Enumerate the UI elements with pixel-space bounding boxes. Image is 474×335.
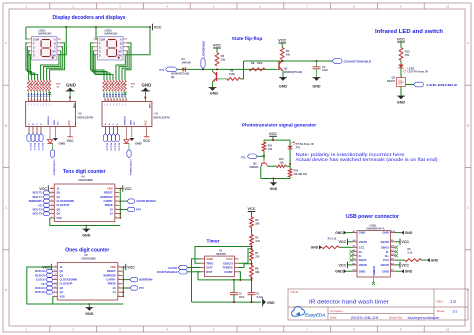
no-connect X below RN2 (123, 92, 126, 95)
svg-text:9: 9 (54, 291, 55, 293)
svg-text:Date:: Date: (330, 315, 337, 319)
svg-text:3: 3 (119, 274, 120, 276)
ground flag GND (decoder) (131, 127, 133, 138)
svg-text:A: A (120, 38, 122, 42)
svg-text:SN74LS247N: SN74LS247N (154, 116, 170, 120)
wire Q3 gate to LED-ENABLE (406, 84, 414, 86)
svg-text:BCD-O1: BCD-O1 (109, 143, 111, 152)
svg-text:SN74LS247N: SN74LS247N (77, 116, 93, 120)
svg-text:VCC: VCC (143, 139, 151, 143)
svg-text:CLOCKUP: CLOCKUP (60, 282, 73, 286)
svg-text:1N4148: 1N4148 (182, 60, 192, 64)
svg-text:BCD-O0: BCD-O0 (105, 143, 107, 152)
svg-text:GND: GND (66, 82, 76, 87)
wire LED1 left segment nest (26, 43, 29, 80)
power flag VCC (USB B4) (348, 264, 353, 266)
svg-text:CLOCK: CLOCK (36, 279, 45, 282)
wire LED5 to Q3 (400, 68, 402, 78)
svg-text:COM: COM (33, 38, 39, 42)
svg-text:2: 2 (116, 191, 117, 193)
ground flag GND (Q2) (280, 78, 286, 81)
svg-text:R5: R5 (286, 49, 290, 53)
svg-text:Infrared LED and switch: Infrared LED and switch (375, 29, 443, 35)
svg-text:10: 10 (54, 287, 56, 289)
svg-text:CC2: CC2 (383, 258, 389, 262)
title block (288, 289, 468, 320)
svg-text:GND: GND (335, 231, 343, 235)
net port flag BCD-O2 (111, 134, 115, 142)
wire VCC rail top (26, 26, 150, 28)
svg-text:PRE/E: PRE/E (108, 282, 116, 286)
svg-text:CONT: CONT (224, 270, 233, 274)
wire U1 TRIG loop to divider (195, 247, 252, 264)
svg-text:C: C (120, 45, 122, 49)
svg-text:VCC: VCC (68, 120, 71, 125)
svg-text:8: 8 (50, 100, 51, 102)
svg-text:COUNT-ENABLE: COUNT-ENABLE (53, 160, 56, 177)
svg-text:VCC: VCC (339, 240, 347, 244)
svg-text:GND: GND (270, 187, 278, 191)
no-connect SBU2 (395, 246, 398, 249)
svg-text:10nF: 10nF (239, 296, 245, 299)
svg-text:7: 7 (116, 212, 117, 214)
svg-text:COUNT-ENABLE: COUNT-ENABLE (344, 59, 372, 63)
svg-text:PT1: PT1 (296, 146, 301, 149)
svg-text:10k: 10k (286, 52, 291, 56)
diode BI/RBO indicator (125, 127, 127, 140)
svg-text:GND: GND (405, 270, 413, 274)
svg-text:A: A (467, 41, 469, 45)
svg-text:BCD-T0: BCD-T0 (33, 213, 43, 216)
svg-text:TITLE:: TITLE: (290, 290, 299, 294)
svg-text:Tens digit counter: Tens digit counter (63, 169, 106, 175)
resistor R6 10k (215, 53, 219, 67)
wire R13 to LED5 (400, 61, 402, 65)
resistor RN2 element 1 (103, 80, 106, 91)
svg-text:11: 11 (35, 100, 37, 102)
ground flag GND (Q3) (398, 96, 404, 99)
svg-text:U4: U4 (81, 175, 85, 179)
svg-text:R11: R11 (268, 144, 273, 148)
no-connect D- left (350, 254, 353, 257)
power flag VCC right of U4 (120, 188, 123, 190)
svg-text:7: 7 (119, 291, 120, 293)
svg-text:D: D (33, 53, 35, 57)
svg-text:Q3: Q3 (60, 286, 64, 290)
svg-text:C: C (467, 206, 469, 210)
wire timer bottom rail (192, 301, 262, 303)
power flag VCC (USB A9) (395, 264, 400, 266)
svg-text:SBU1: SBU1 (359, 258, 367, 262)
svg-text:BCD-O0: BCD-O0 (35, 291, 45, 294)
svg-text:SHIELD: SHIELD (372, 266, 376, 276)
net port flag BCD-T0 (43, 212, 50, 216)
svg-text:4: 4 (116, 200, 117, 202)
ground flag GND (USB B1) (395, 270, 401, 272)
svg-text:U3: U3 (155, 112, 159, 116)
svg-text:GND: GND (142, 82, 152, 87)
svg-text:CLOCKDOWN: CLOCKDOWN (60, 278, 78, 282)
svg-text:BCD-T1: BCD-T1 (33, 196, 43, 199)
svg-text:FT1: FT1 (160, 68, 165, 72)
svg-text:BCD-O1: BCD-O1 (35, 287, 45, 290)
node VCC rail junction C (149, 26, 151, 28)
svg-text:Q3: Q3 (57, 207, 61, 211)
wire Q2 collector output (244, 60, 333, 62)
svg-text:CD40192BE: CD40192BE (78, 178, 93, 182)
svg-text:2N3904: 2N3904 (249, 165, 259, 169)
net port flag BCD-O1 (46, 286, 53, 290)
svg-text:10: 10 (38, 100, 40, 102)
net port flag BCD-T2 (35, 134, 39, 142)
svg-text:10k OR 15k: 10k OR 15k (294, 173, 308, 176)
svg-text:2N3904(TO-92): 2N3904(TO-92) (284, 70, 302, 74)
svg-text:4.7k: 4.7k (255, 240, 260, 243)
wire VCC bus right of U4 (119, 189, 121, 218)
svg-text:GND: GND (397, 101, 406, 105)
svg-text:GND: GND (267, 301, 275, 305)
net port flag CLOCK (46, 278, 53, 282)
svg-text:GND: GND (359, 269, 367, 273)
capacitor C3 10uF (316, 61, 318, 67)
net port flag BCD-T1 (43, 195, 50, 199)
svg-text:2020-06-29: 2020-06-29 (351, 316, 379, 320)
svg-text:B: B (54, 42, 56, 46)
svg-text:5: 5 (116, 204, 117, 206)
svg-text:VCC: VCC (401, 240, 409, 244)
wire VCC bus right of U6 (122, 267, 124, 296)
svg-text:RBI#: RBI# (54, 119, 56, 125)
net port flag BCD-O1 (107, 134, 111, 142)
svg-text:C: C (5, 206, 7, 210)
phototransistor PT1 (289, 140, 291, 146)
ground flag GND (Q1) (209, 88, 215, 91)
svg-text:5.1k: 5.1k (408, 252, 413, 255)
svg-text:Q1: Q1 (171, 75, 175, 79)
svg-text:14: 14 (54, 270, 56, 272)
svg-text:COM: COM (99, 38, 105, 42)
svg-text:Q1: Q1 (60, 273, 64, 277)
svg-text:33k: 33k (255, 222, 260, 225)
svg-text:100k: 100k (257, 61, 263, 65)
resistor RN2 element 7 (121, 80, 124, 91)
svg-text:VSS: VSS (57, 216, 62, 220)
svg-text:Drawn By:: Drawn By: (389, 315, 403, 319)
svg-text:BI/RBO#: BI/RBO# (125, 115, 127, 125)
svg-text:R6: R6 (221, 54, 225, 58)
svg-text:CARRY: CARRY (106, 278, 115, 282)
svg-text:LED-TH-5mm_IR: LED-TH-5mm_IR (408, 70, 429, 74)
svg-text:Timer: Timer (207, 239, 220, 245)
svg-text:VCC: VCC (67, 139, 75, 143)
svg-text:VCC: VCC (397, 38, 405, 42)
svg-text:B: B (5, 123, 7, 127)
net port flag VG (46, 282, 53, 286)
svg-text:Q1: Q1 (57, 195, 61, 199)
svg-text:D+: D+ (385, 254, 389, 258)
svg-text:Q2: Q2 (57, 191, 61, 195)
svg-text:Ones digit counter: Ones digit counter (65, 247, 109, 253)
svg-text:U1: U1 (219, 248, 223, 252)
svg-text:VCC: VCC (39, 187, 47, 191)
svg-text:10: 10 (114, 100, 116, 102)
node VCC rail junction A (65, 26, 67, 28)
svg-text:BCD-T0: BCD-T0 (29, 143, 31, 151)
svg-text:8: 8 (119, 295, 120, 297)
svg-text:BORROW: BORROW (100, 195, 113, 199)
svg-text:150: 150 (405, 53, 410, 57)
svg-text:SBU2: SBU2 (381, 245, 389, 249)
svg-text:15: 15 (54, 266, 56, 268)
ground flag GND (USB A1) (347, 232, 353, 234)
net port flag BCD-T0 (27, 134, 31, 142)
svg-text:LED-ENABLE: LED-ENABLE (202, 41, 206, 58)
svg-text:VCC: VCC (42, 265, 50, 269)
power flag VCC (Q2 collector supply) (278, 42, 286, 44)
svg-text:RESET: RESET (107, 269, 116, 273)
svg-text:USB power connector: USB power connector (346, 214, 399, 220)
net port flag BCD-T3 (43, 208, 50, 212)
IC U5 SN74LS247N decoder (26, 102, 76, 127)
resistor R13 150 (399, 48, 403, 61)
ground flag GND (tens display) (69, 91, 71, 98)
wire phototransistor top rail (264, 139, 290, 141)
svg-text:3: 3 (116, 195, 117, 197)
net port flag COUNT-ENABLE (120, 200, 127, 202)
power flag VCC (USB B9) (395, 241, 400, 243)
svg-text:GND: GND (359, 231, 367, 235)
svg-text:A: A (54, 38, 56, 42)
svg-text:BS170: BS170 (387, 79, 395, 83)
resistor R2 5.1k (CC2 pulldown) (395, 259, 405, 261)
no-connect X below RN1 (48, 92, 51, 95)
svg-text:Q2: Q2 (60, 269, 64, 273)
svg-text:C3: C3 (322, 65, 326, 69)
resistor R9 100k (217, 78, 228, 80)
svg-text:EasyEDA: EasyEDA (305, 313, 325, 318)
svg-text:BI/RBO#: BI/RBO# (48, 115, 50, 125)
svg-text:8: 8 (126, 100, 127, 102)
net port flag BCD-T2 (43, 191, 50, 195)
node Q1 collector (216, 68, 218, 70)
svg-text:11: 11 (111, 100, 113, 102)
wire VCC rail drop to LED2 COM (127, 27, 150, 55)
wire U6 left ground loop (27, 267, 90, 304)
svg-text:CD40192BE: CD40192BE (81, 257, 96, 261)
resistor R8 68k (250, 266, 254, 277)
net port flag COUNT-ENABLE (332, 59, 342, 64)
svg-text:8: 8 (51, 216, 52, 218)
net port flag BCD-O0 (46, 290, 53, 294)
net port flag COUNT-ENABLE vertical (128, 143, 130, 150)
svg-text:R8: R8 (251, 61, 255, 65)
svg-text:E: E (33, 49, 35, 53)
net port flag BCD-T1 (31, 134, 35, 142)
svg-text:GND: GND (382, 269, 390, 273)
ground flag GND (R2) (427, 258, 430, 262)
resistor RN2 element 5 (115, 80, 118, 91)
svg-text:BCD-O2: BCD-O2 (35, 274, 45, 277)
power flag VCC (decoder) (69, 127, 71, 137)
svg-text:D: D (5, 288, 7, 292)
svg-text:GND: GND (335, 270, 343, 274)
svg-text:BCD-T2: BCD-T2 (33, 192, 43, 195)
power flag VCC (IR LED) (397, 41, 405, 43)
power flag VCC left of U4 (47, 185, 49, 191)
svg-text:GND: GND (210, 92, 219, 96)
power flag VCC (timer divider) (248, 211, 256, 213)
pins top of U3 (104, 98, 106, 102)
svg-text:RST: RST (206, 270, 212, 274)
svg-text:COUNT-ENABLE: COUNT-ENABLE (129, 160, 132, 177)
pin GND top of U3 (145, 98, 147, 102)
wire LED1 COM drop (61, 27, 66, 55)
resistor RN1 element 8 (48, 80, 51, 91)
svg-text:IR detector hand wash timer: IR detector hand wash timer (309, 299, 389, 305)
resistor R11 10k (263, 140, 265, 142)
svg-text:Q2: Q2 (284, 67, 288, 71)
svg-text:10k: 10k (221, 57, 226, 61)
svg-text:U5: U5 (78, 112, 82, 116)
svg-text:10uF: 10uF (322, 68, 328, 72)
svg-text:BCD-O3: BCD-O3 (35, 270, 45, 273)
ground flag GND (R1) (319, 245, 322, 249)
svg-text:1: 1 (119, 266, 120, 268)
svg-text:CC1: CC1 (359, 245, 365, 249)
power flag VCC (Q1 collector supply) (213, 47, 221, 49)
no-connect D+ left (350, 250, 353, 253)
svg-text:GND: GND (72, 103, 74, 108)
svg-text:10: 10 (44, 100, 46, 102)
svg-text:BCD-T3: BCD-T3 (33, 209, 43, 212)
ground flag GND below U4 (85, 226, 87, 230)
ground flag GND (USB A12) (347, 270, 353, 272)
svg-text:VCC: VCC (247, 207, 255, 211)
wire VSS rail below U6 (53, 296, 124, 304)
svg-text:Phototransistor signal generat: Phototransistor signal generator (242, 123, 316, 129)
svg-text:Q4: Q4 (60, 290, 64, 294)
svg-text:BCD-T1: BCD-T1 (33, 143, 35, 151)
svg-text:B: B (467, 123, 469, 127)
wire Q4 collector to R12 (267, 165, 276, 167)
power flag VCC top right (152, 24, 154, 30)
svg-text:GND: GND (312, 85, 321, 89)
wire Q3 source to GND (400, 87, 402, 97)
svg-text:1: 1 (116, 187, 117, 189)
net port flag BORROW# (123, 279, 130, 281)
pin GND top of U5 (69, 98, 71, 102)
wire LED2 right segment nest (125, 43, 131, 80)
svg-text:GND: GND (148, 103, 150, 108)
svg-text:VCC: VCC (127, 265, 135, 269)
resistor RN2 element 2 (106, 80, 109, 91)
svg-text:9: 9 (47, 100, 48, 102)
svg-text:8: 8 (116, 216, 117, 218)
resistor RN1 element 2 (30, 80, 33, 91)
svg-text:A: A (5, 41, 7, 45)
svg-text:GND: GND (82, 234, 91, 238)
svg-text:VCC: VCC (401, 263, 409, 267)
svg-text:D1: D1 (182, 57, 186, 61)
svg-text:BCD-T3: BCD-T3 (41, 143, 43, 151)
power flag VCC right of U6 (123, 266, 126, 268)
resistor R14 10k OR 15k (289, 164, 291, 169)
net port flag LED-ENABLE vertical (202, 68, 204, 70)
wire FT1 to Q4 base (257, 155, 264, 157)
wire phototransistor bottom rail (289, 177, 291, 179)
svg-text:State flip-flop: State flip-flop (232, 36, 263, 42)
power flag VCC left of U6 (50, 264, 52, 270)
net port flag BCD-O3 (46, 269, 53, 273)
svg-text:VCC: VCC (339, 263, 347, 267)
svg-text:LED-ENABLE: LED-ENABLE (427, 83, 458, 87)
net port flag BCD-O3 (115, 134, 119, 142)
EasyEDA logo (292, 306, 326, 317)
pin entry marks below RN1 (28, 93, 51, 96)
wire flip-flop base line (177, 68, 277, 70)
ground flag GND below U6 (88, 304, 90, 308)
svg-text:10: 10 (120, 100, 122, 102)
net port flag BCD-O0 (103, 134, 107, 142)
svg-text:5: 5 (119, 282, 120, 284)
ground flag GND (ones display) (145, 91, 147, 98)
svg-text:9: 9 (51, 212, 52, 214)
net port flag LED-ENABLE (414, 82, 424, 87)
ground flag GND (decoder) (54, 127, 56, 138)
svg-text:15: 15 (51, 187, 53, 189)
svg-text:Company:: Company: (330, 309, 344, 313)
svg-text:D: D (99, 53, 101, 57)
svg-text:CLOCKDOWN: CLOCKDOWN (57, 199, 75, 203)
svg-text:Q4: Q4 (253, 162, 257, 166)
svg-text:Display decoders and displays: Display decoders and displays (52, 15, 125, 21)
svg-text:COUNT-ENABLE: COUNT-ENABLE (136, 200, 156, 203)
svg-text:Q4: Q4 (57, 212, 61, 216)
svg-text:BORROW#: BORROW# (29, 200, 43, 203)
net port flag BCD-T3 (39, 134, 43, 142)
svg-text:2: 2 (119, 270, 120, 272)
svg-text:VCC: VCC (145, 120, 148, 125)
svg-text:9: 9 (117, 100, 118, 102)
resistor RN1 element 1 (27, 80, 30, 91)
svg-text:BCD-T2: BCD-T2 (37, 143, 39, 151)
resistor R5 10k (280, 48, 284, 60)
svg-text:GND: GND (311, 246, 319, 250)
svg-text:12: 12 (32, 100, 34, 102)
svg-text:G: G (33, 45, 35, 49)
wire U1 THRES to divider (239, 264, 252, 268)
resistor RN1 element 3 (33, 80, 36, 91)
svg-text:GND: GND (382, 231, 390, 235)
svg-text:Sheet:: Sheet: (437, 309, 446, 313)
svg-text:GND: GND (405, 231, 413, 235)
svg-text:13: 13 (51, 195, 53, 197)
svg-text:VBUS: VBUS (381, 240, 389, 244)
no-connect SBU1 (350, 258, 353, 261)
node VCC rail junction B (95, 26, 97, 28)
svg-text:PT#: PT# (139, 287, 144, 290)
svg-text:COM: COM (50, 53, 56, 57)
transistor Q2 2N3904 (278, 61, 280, 70)
svg-text:11: 11 (54, 282, 56, 284)
node PT1 emitter junction (289, 163, 291, 165)
net port flag BCD-O2 (46, 274, 53, 278)
power flag VCC (phototransistor) (269, 135, 277, 137)
pins bottom of U3 (104, 127, 106, 134)
capacitor C2 10nF (233, 280, 235, 293)
net port flag COUNT-ENABLE vertical (52, 143, 54, 150)
svg-text:9: 9 (41, 100, 42, 102)
